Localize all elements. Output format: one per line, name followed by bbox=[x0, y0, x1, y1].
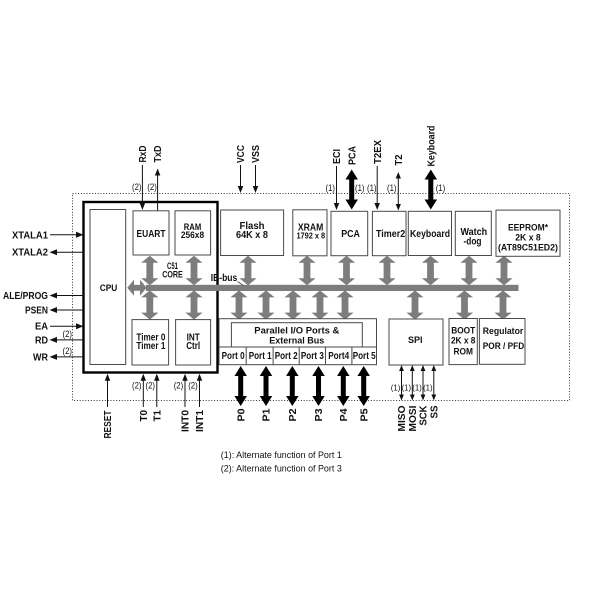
svg-text:Keyboard: Keyboard bbox=[426, 126, 437, 167]
svg-text:(2): (2) bbox=[174, 381, 184, 391]
svg-text:P2: P2 bbox=[288, 408, 299, 421]
svg-text:(1): (1) bbox=[387, 183, 397, 193]
svg-text:TxD: TxD bbox=[153, 146, 164, 163]
svg-text:P5: P5 bbox=[359, 408, 370, 421]
svg-text:(2): (2) bbox=[132, 381, 142, 391]
svg-text:Port4: Port4 bbox=[328, 351, 349, 362]
svg-text:ALE/PROG: ALE/PROG bbox=[3, 291, 48, 302]
svg-text:Regulator: Regulator bbox=[483, 326, 524, 337]
svg-text:Ctrl: Ctrl bbox=[186, 341, 200, 352]
svg-text:1792 x 8: 1792 x 8 bbox=[296, 231, 325, 241]
svg-text:64K x 8: 64K x 8 bbox=[236, 230, 268, 241]
svg-text:ECI: ECI bbox=[332, 149, 343, 164]
svg-text:EUART: EUART bbox=[137, 229, 166, 240]
svg-text:BOOT: BOOT bbox=[451, 326, 475, 336]
svg-text:(2): (2) bbox=[147, 182, 157, 192]
svg-text:(1): Alternate function of Por: (1): Alternate function of Port 1 bbox=[221, 450, 342, 461]
svg-text:P1: P1 bbox=[262, 408, 273, 421]
svg-text:XTALA2: XTALA2 bbox=[12, 248, 48, 259]
svg-text:T2: T2 bbox=[394, 154, 405, 165]
svg-text:Port 2: Port 2 bbox=[275, 351, 298, 362]
svg-text:Port 3: Port 3 bbox=[301, 351, 324, 362]
svg-text:(2): (2) bbox=[146, 381, 156, 391]
svg-text:(1): (1) bbox=[391, 383, 401, 393]
svg-text:INT0: INT0 bbox=[181, 410, 192, 432]
svg-text:PCA: PCA bbox=[341, 229, 360, 240]
svg-text:PCA: PCA bbox=[347, 146, 358, 165]
svg-text:CPU: CPU bbox=[100, 283, 118, 294]
svg-text:WR: WR bbox=[33, 352, 49, 363]
svg-text:(1): (1) bbox=[367, 183, 377, 193]
svg-text:P0: P0 bbox=[236, 408, 247, 421]
svg-text:CORE: CORE bbox=[162, 270, 183, 280]
svg-text:P3: P3 bbox=[314, 408, 325, 421]
svg-text:IB-bus: IB-bus bbox=[211, 273, 238, 284]
svg-text:MOSI: MOSI bbox=[408, 405, 419, 431]
svg-text:-dog: -dog bbox=[464, 236, 482, 247]
svg-text:EEPROM*: EEPROM* bbox=[508, 223, 548, 233]
svg-text:(1): (1) bbox=[402, 383, 412, 393]
svg-text:VSS: VSS bbox=[251, 145, 262, 163]
svg-text:P4: P4 bbox=[339, 408, 350, 421]
svg-text:MISO: MISO bbox=[397, 405, 408, 431]
svg-text:Port 5: Port 5 bbox=[353, 351, 376, 362]
svg-text:(1): (1) bbox=[412, 383, 422, 393]
svg-text:SCK: SCK bbox=[419, 405, 430, 426]
svg-text:Timer 1: Timer 1 bbox=[136, 341, 165, 352]
svg-text:(AT89C51ED2): (AT89C51ED2) bbox=[498, 243, 558, 253]
svg-text:(2): (2) bbox=[188, 381, 198, 391]
svg-text:Port 1: Port 1 bbox=[249, 351, 272, 362]
svg-text:(2): (2) bbox=[63, 329, 73, 339]
svg-text:PSEN: PSEN bbox=[25, 306, 48, 317]
svg-text:2K x 8: 2K x 8 bbox=[451, 336, 476, 346]
svg-text:(2): (2) bbox=[63, 346, 73, 356]
svg-text:INT1: INT1 bbox=[195, 410, 206, 432]
svg-text:Port 0: Port 0 bbox=[222, 351, 245, 362]
svg-text:(1): (1) bbox=[355, 183, 365, 193]
svg-text:T2EX: T2EX bbox=[373, 140, 384, 164]
svg-text:SS: SS bbox=[429, 405, 440, 418]
svg-text:POR / PFD: POR / PFD bbox=[483, 341, 525, 352]
svg-text:T1: T1 bbox=[152, 410, 163, 422]
svg-text:RESET: RESET bbox=[103, 411, 114, 439]
svg-text:RxD: RxD bbox=[138, 146, 149, 163]
svg-text:2K x 8: 2K x 8 bbox=[515, 233, 541, 243]
svg-text:VCC: VCC bbox=[236, 145, 247, 163]
svg-text:256x8: 256x8 bbox=[181, 230, 204, 241]
svg-text:(1): (1) bbox=[326, 183, 336, 193]
svg-text:(1): (1) bbox=[436, 183, 446, 193]
svg-text:SPI: SPI bbox=[408, 335, 423, 345]
svg-text:(2): (2) bbox=[132, 182, 142, 192]
svg-text:XTALA1: XTALA1 bbox=[12, 230, 48, 241]
svg-text:External Bus: External Bus bbox=[269, 335, 324, 346]
svg-text:ROM: ROM bbox=[453, 347, 473, 357]
svg-text:Parallel I/O Ports &: Parallel I/O Ports & bbox=[254, 325, 340, 335]
svg-text:EA: EA bbox=[35, 322, 48, 333]
svg-text:RD: RD bbox=[35, 335, 48, 346]
svg-text:T0: T0 bbox=[139, 410, 150, 422]
svg-text:Keyboard: Keyboard bbox=[410, 229, 450, 240]
svg-text:(2): Alternate function of Por: (2): Alternate function of Port 3 bbox=[221, 464, 342, 475]
svg-text:Timer2: Timer2 bbox=[376, 229, 406, 240]
svg-text:(1): (1) bbox=[423, 383, 433, 393]
